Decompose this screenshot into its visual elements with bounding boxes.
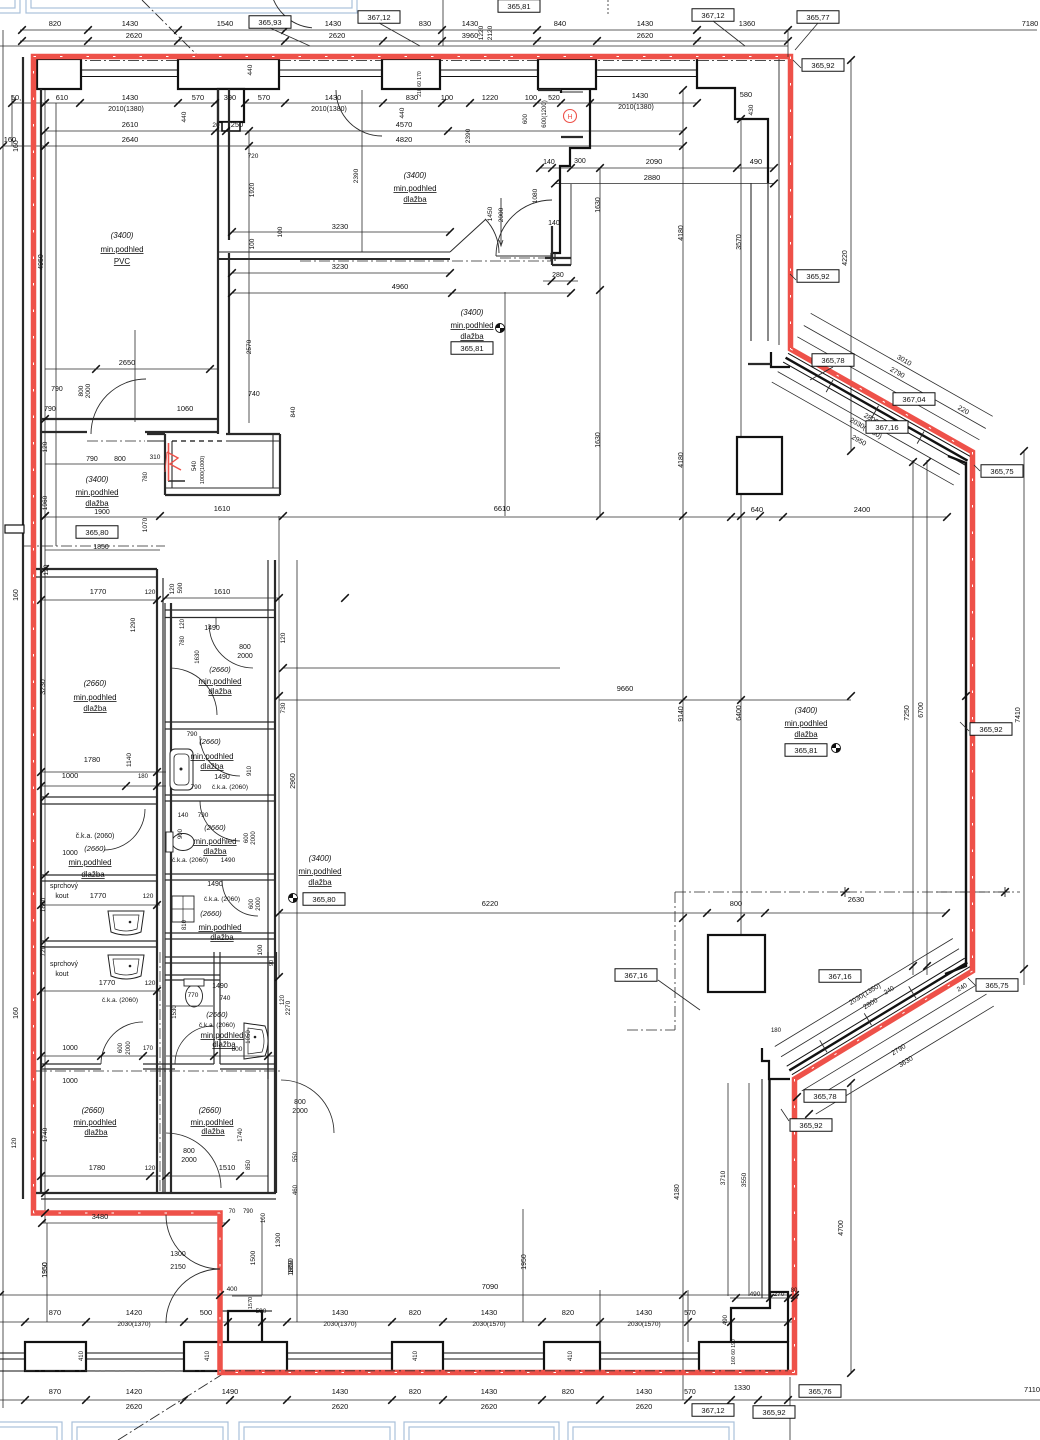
- svg-text:1430: 1430: [325, 93, 342, 102]
- svg-text:2000: 2000: [256, 897, 262, 911]
- svg-text:800: 800: [114, 456, 126, 463]
- svg-text:(3400): (3400): [86, 475, 109, 484]
- svg-text:4700: 4700: [838, 1220, 845, 1236]
- svg-text:1740: 1740: [42, 1127, 49, 1142]
- svg-text:2120: 2120: [487, 25, 494, 40]
- svg-text:1490: 1490: [221, 857, 236, 864]
- svg-text:min.podhled: min.podhled: [193, 837, 236, 846]
- svg-text:1960: 1960: [42, 495, 49, 510]
- svg-text:2620: 2620: [636, 1402, 653, 1411]
- svg-text:160 60 190: 160 60 190: [731, 1339, 737, 1365]
- svg-text:1430: 1430: [481, 1308, 498, 1317]
- svg-text:367,16: 367,16: [875, 423, 898, 432]
- svg-text:(3400): (3400): [795, 706, 818, 715]
- svg-text:2270: 2270: [285, 1000, 292, 1015]
- svg-text:1430: 1430: [325, 19, 342, 28]
- svg-text:dlažba: dlažba: [460, 332, 484, 341]
- svg-text:800: 800: [730, 899, 742, 908]
- svg-text:min.podhled: min.podhled: [68, 858, 111, 867]
- svg-text:1000(1000): 1000(1000): [200, 456, 206, 485]
- svg-text:dlažba: dlažba: [403, 195, 427, 204]
- svg-text:1300: 1300: [275, 1232, 282, 1247]
- svg-text:790: 790: [51, 386, 63, 393]
- svg-text:140: 140: [543, 159, 555, 166]
- svg-text:1900: 1900: [94, 509, 110, 516]
- svg-text:900: 900: [178, 828, 184, 839]
- svg-text:min.podhled: min.podhled: [190, 1118, 233, 1127]
- svg-text:600: 600: [523, 113, 529, 124]
- svg-text:180: 180: [138, 774, 149, 780]
- svg-text:1610: 1610: [214, 587, 231, 596]
- svg-text:490: 490: [750, 157, 762, 166]
- svg-text:365,80: 365,80: [85, 528, 108, 537]
- svg-text:2030(1370): 2030(1370): [323, 1321, 356, 1328]
- svg-text:820: 820: [562, 1308, 574, 1317]
- svg-text:2400: 2400: [854, 505, 871, 514]
- svg-text:440: 440: [247, 64, 254, 75]
- svg-text:1630: 1630: [195, 650, 201, 664]
- svg-text:3550: 3550: [741, 1172, 748, 1187]
- svg-text:2000: 2000: [498, 207, 505, 222]
- svg-text:1950: 1950: [42, 1262, 49, 1278]
- svg-text:1770: 1770: [99, 978, 116, 987]
- svg-text:590: 590: [256, 1308, 267, 1315]
- svg-text:600: 600: [244, 832, 250, 843]
- svg-text:1140: 1140: [126, 753, 133, 767]
- svg-text:1500: 1500: [250, 1250, 257, 1265]
- svg-text:1780: 1780: [89, 1163, 106, 1172]
- svg-text:2150: 2150: [170, 1264, 186, 1271]
- svg-text:640: 640: [751, 505, 763, 514]
- svg-text:365,81: 365,81: [794, 746, 817, 755]
- svg-text:(3400): (3400): [111, 231, 134, 240]
- svg-text:kout: kout: [55, 893, 68, 900]
- svg-text:dlažba: dlažba: [203, 847, 227, 856]
- svg-text:1300: 1300: [170, 1251, 186, 1258]
- svg-text:H: H: [567, 114, 572, 121]
- svg-text:(2660): (2660): [209, 665, 231, 674]
- svg-text:610: 610: [56, 93, 68, 102]
- svg-text:min.podhled: min.podhled: [100, 245, 143, 254]
- svg-text:820: 820: [409, 1387, 421, 1396]
- svg-text:2960: 2960: [290, 773, 297, 789]
- svg-text:2610: 2610: [122, 120, 139, 129]
- svg-text:790: 790: [191, 784, 202, 791]
- svg-text:365,81: 365,81: [507, 2, 530, 11]
- svg-text:120: 120: [143, 893, 154, 900]
- svg-text:120: 120: [42, 441, 49, 452]
- svg-text:č.k.a. (2060): č.k.a. (2060): [76, 833, 115, 840]
- svg-text:365,81: 365,81: [460, 344, 483, 353]
- svg-text:870: 870: [49, 1387, 61, 1396]
- svg-text:1430: 1430: [122, 19, 139, 28]
- svg-text:365,92: 365,92: [979, 725, 1002, 734]
- svg-text:800: 800: [232, 1046, 243, 1053]
- svg-text:(2660): (2660): [84, 679, 107, 688]
- svg-text:(3400): (3400): [461, 308, 484, 317]
- svg-text:730: 730: [280, 702, 287, 713]
- svg-text:790: 790: [86, 456, 98, 463]
- svg-text:570: 570: [684, 1310, 696, 1317]
- svg-text:100: 100: [257, 944, 264, 955]
- svg-text:3230: 3230: [332, 222, 349, 231]
- svg-text:367,12: 367,12: [701, 1406, 724, 1415]
- svg-text:120: 120: [180, 618, 186, 629]
- svg-text:1080: 1080: [532, 188, 539, 203]
- svg-text:6610: 6610: [494, 504, 511, 513]
- svg-text:1290: 1290: [130, 617, 137, 632]
- svg-text:800: 800: [239, 644, 251, 651]
- svg-text:1490: 1490: [204, 625, 220, 632]
- svg-text:2030(1570): 2030(1570): [472, 1321, 505, 1328]
- svg-text:180: 180: [771, 1028, 782, 1034]
- svg-text:6400: 6400: [736, 705, 743, 721]
- svg-text:1070: 1070: [142, 517, 149, 532]
- svg-text:1510: 1510: [219, 1163, 236, 1172]
- svg-text:1920: 1920: [249, 182, 256, 197]
- svg-text:4220: 4220: [842, 250, 849, 266]
- svg-text:dlažba: dlažba: [83, 704, 107, 713]
- svg-text:1430: 1430: [632, 91, 649, 100]
- svg-text:365,76: 365,76: [808, 1387, 831, 1396]
- svg-text:1430: 1430: [636, 1308, 653, 1317]
- svg-text:9660: 9660: [617, 684, 634, 693]
- svg-text:dlažba: dlažba: [200, 762, 224, 771]
- svg-text:min.podhled: min.podhled: [190, 752, 233, 761]
- svg-text:365,93: 365,93: [258, 18, 281, 27]
- svg-text:1430: 1430: [462, 19, 479, 28]
- svg-text:6700: 6700: [918, 702, 925, 718]
- svg-text:1000: 1000: [62, 771, 79, 780]
- svg-text:1430: 1430: [332, 1387, 349, 1396]
- svg-text:570: 570: [258, 93, 270, 102]
- svg-text:800: 800: [183, 1148, 195, 1155]
- svg-text:100: 100: [261, 1212, 267, 1223]
- svg-text:3230: 3230: [332, 262, 349, 271]
- svg-text:1860: 1860: [40, 897, 47, 912]
- svg-text:1740: 1740: [238, 1128, 244, 1142]
- svg-text:1850: 1850: [288, 1260, 295, 1276]
- svg-text:400: 400: [227, 1286, 238, 1293]
- svg-text:367,16: 367,16: [624, 971, 647, 980]
- svg-text:1630: 1630: [595, 197, 602, 213]
- svg-text:1490: 1490: [214, 774, 230, 781]
- svg-text:1220: 1220: [478, 25, 485, 40]
- svg-text:3570: 3570: [736, 234, 743, 250]
- svg-text:4180: 4180: [678, 225, 685, 241]
- svg-text:1050: 1050: [246, 1030, 252, 1044]
- svg-text:min.podhled: min.podhled: [393, 184, 436, 193]
- svg-text:1610: 1610: [214, 504, 231, 513]
- svg-text:2010(1380): 2010(1380): [108, 106, 144, 113]
- svg-text:120: 120: [11, 1137, 18, 1148]
- svg-text:160: 160: [13, 1007, 20, 1019]
- svg-text:kout: kout: [55, 971, 68, 978]
- svg-text:2620: 2620: [332, 1402, 349, 1411]
- svg-text:830: 830: [419, 19, 431, 28]
- svg-text:min.podhled: min.podhled: [73, 1118, 116, 1127]
- svg-text:160: 160: [13, 589, 20, 601]
- svg-text:dlažba: dlažba: [84, 1128, 108, 1137]
- svg-text:50,: 50,: [11, 93, 21, 102]
- svg-text:(2660): (2660): [82, 1106, 105, 1115]
- svg-text:520: 520: [548, 95, 560, 102]
- svg-text:2000: 2000: [181, 1157, 197, 1164]
- svg-text:(3400): (3400): [309, 854, 332, 863]
- svg-text:č.k.a. (2060): č.k.a. (2060): [172, 857, 208, 864]
- svg-text:1770: 1770: [90, 587, 107, 596]
- svg-text:160: 160: [13, 140, 20, 152]
- svg-text:600(1200): 600(1200): [542, 100, 548, 128]
- svg-text:1430: 1430: [481, 1387, 498, 1396]
- svg-text:2620: 2620: [481, 1402, 498, 1411]
- svg-text:2000: 2000: [292, 1108, 308, 1115]
- svg-text:7090: 7090: [482, 1282, 499, 1291]
- svg-text:780: 780: [180, 635, 186, 646]
- svg-text:1490: 1490: [222, 1387, 239, 1396]
- svg-text:550: 550: [293, 1151, 299, 1162]
- svg-text:430: 430: [748, 104, 755, 115]
- svg-text:2650: 2650: [119, 358, 136, 367]
- svg-text:1430: 1430: [332, 1308, 349, 1317]
- svg-text:830: 830: [406, 93, 418, 102]
- svg-text:580: 580: [740, 90, 752, 99]
- svg-text:2030(1570): 2030(1570): [627, 1321, 660, 1328]
- svg-text:7250: 7250: [904, 705, 911, 721]
- svg-text:min.podhled: min.podhled: [73, 693, 116, 702]
- svg-text:367,12: 367,12: [367, 13, 390, 22]
- svg-text:310: 310: [150, 454, 161, 461]
- svg-text:410: 410: [568, 1350, 574, 1361]
- svg-text:1360: 1360: [739, 19, 756, 28]
- svg-text:600: 600: [249, 898, 255, 909]
- svg-text:100: 100: [249, 238, 256, 249]
- svg-text:2390: 2390: [465, 128, 472, 143]
- svg-text:365,92: 365,92: [799, 1121, 822, 1130]
- svg-text:410: 410: [205, 1350, 211, 1361]
- svg-text:300: 300: [574, 158, 586, 165]
- svg-text:min.podhled: min.podhled: [298, 867, 341, 876]
- svg-text:740: 740: [220, 995, 231, 1002]
- svg-text:440: 440: [181, 111, 188, 122]
- svg-text:2620: 2620: [637, 31, 654, 40]
- svg-text:410: 410: [79, 1350, 85, 1361]
- svg-text:1330: 1330: [734, 1383, 751, 1392]
- svg-text:500: 500: [200, 1308, 212, 1317]
- svg-text:840: 840: [554, 19, 566, 28]
- svg-text:7110: 7110: [1024, 1385, 1040, 1394]
- svg-text:365,78: 365,78: [813, 1092, 836, 1101]
- svg-text:780: 780: [143, 471, 149, 482]
- svg-text:1420: 1420: [126, 1308, 143, 1317]
- svg-text:1430: 1430: [122, 93, 139, 102]
- svg-text:4820: 4820: [396, 135, 413, 144]
- svg-text:2000: 2000: [85, 383, 92, 398]
- svg-text:840: 840: [290, 406, 297, 417]
- svg-text:2880: 2880: [644, 173, 661, 182]
- svg-text:3480: 3480: [92, 1212, 109, 1221]
- svg-text:570: 570: [684, 1389, 696, 1396]
- svg-text:120: 120: [43, 564, 50, 575]
- svg-text:365,77: 365,77: [806, 13, 829, 22]
- svg-text:70: 70: [229, 1209, 236, 1215]
- svg-text:min.podhled: min.podhled: [198, 923, 241, 932]
- svg-text:2010(1380): 2010(1380): [311, 106, 347, 113]
- svg-text:(2660): (2660): [206, 1010, 228, 1019]
- svg-text:min.podhled: min.podhled: [75, 488, 118, 497]
- svg-text:100: 100: [441, 93, 453, 102]
- svg-text:2570: 2570: [246, 339, 253, 354]
- svg-text:770: 770: [188, 992, 199, 999]
- svg-text:dlažba: dlažba: [85, 499, 109, 508]
- svg-text:2000: 2000: [237, 653, 253, 660]
- svg-text:1490: 1490: [212, 983, 228, 990]
- svg-text:800: 800: [294, 1099, 306, 1106]
- svg-text:120: 120: [145, 589, 156, 596]
- svg-text:č.k.a. (2060): č.k.a. (2060): [212, 784, 248, 791]
- svg-text:9140: 9140: [678, 706, 685, 722]
- svg-text:sprchový: sprchový: [50, 883, 78, 890]
- svg-text:820: 820: [562, 1387, 574, 1396]
- svg-text:365,78: 365,78: [821, 356, 844, 365]
- svg-text:4180: 4180: [678, 452, 685, 468]
- svg-text:1450: 1450: [487, 206, 494, 221]
- svg-text:365,92: 365,92: [811, 61, 834, 70]
- svg-text:dlažba: dlažba: [208, 687, 232, 696]
- svg-text:min.podhled: min.podhled: [198, 677, 241, 686]
- svg-text:365,92: 365,92: [806, 272, 829, 281]
- svg-text:1220: 1220: [482, 93, 499, 102]
- svg-text:7180: 7180: [1022, 19, 1039, 28]
- svg-text:460: 460: [293, 1184, 299, 1195]
- svg-text:820: 820: [49, 19, 61, 28]
- svg-text:2620: 2620: [126, 1402, 143, 1411]
- svg-text:4180: 4180: [674, 1184, 681, 1200]
- svg-text:100: 100: [277, 226, 284, 237]
- svg-text:850: 850: [246, 1159, 252, 1170]
- svg-text:č.k.a. (2060): č.k.a. (2060): [199, 1022, 235, 1029]
- svg-text:800: 800: [78, 385, 85, 396]
- svg-text:2390: 2390: [353, 168, 360, 183]
- svg-text:1530: 1530: [172, 1005, 178, 1019]
- svg-text:1770: 1770: [90, 891, 107, 900]
- svg-text:367,04: 367,04: [902, 395, 926, 404]
- svg-text:č.k.a. (2060): č.k.a. (2060): [102, 997, 138, 1004]
- svg-text:3710: 3710: [720, 1170, 727, 1185]
- svg-text:4950: 4950: [38, 254, 45, 270]
- svg-text:140: 140: [548, 220, 560, 227]
- svg-text:720: 720: [248, 153, 259, 160]
- svg-text:min.podhled: min.podhled: [450, 321, 493, 330]
- svg-text:120: 120: [145, 1165, 156, 1172]
- svg-text:1850: 1850: [93, 544, 109, 551]
- svg-text:1630: 1630: [595, 432, 602, 448]
- svg-text:1950: 1950: [521, 1254, 528, 1270]
- svg-text:2030(1370): 2030(1370): [117, 1321, 150, 1328]
- svg-text:dlažba: dlažba: [308, 878, 332, 887]
- svg-text:1430: 1430: [636, 1387, 653, 1396]
- svg-text:910: 910: [247, 765, 253, 776]
- svg-text:1430: 1430: [637, 19, 654, 28]
- svg-text:4570: 4570: [396, 120, 413, 129]
- svg-text:390: 390: [224, 93, 236, 102]
- svg-text:2620: 2620: [126, 31, 143, 40]
- svg-text:365,75: 365,75: [985, 981, 1008, 990]
- svg-text:90: 90: [269, 960, 275, 966]
- svg-text:dlažba: dlažba: [81, 870, 105, 879]
- svg-text:810: 810: [182, 919, 188, 930]
- svg-text:410: 410: [413, 1350, 419, 1361]
- svg-text:367,12: 367,12: [701, 11, 724, 20]
- svg-text:dlažba: dlažba: [210, 933, 234, 942]
- svg-text:4960: 4960: [392, 282, 409, 291]
- svg-text:1420: 1420: [126, 1387, 143, 1396]
- svg-text:1780: 1780: [84, 755, 101, 764]
- svg-text:790: 790: [198, 812, 209, 819]
- svg-text:490: 490: [723, 1314, 729, 1325]
- svg-text:7410: 7410: [1015, 707, 1022, 723]
- svg-text:6220: 6220: [482, 899, 499, 908]
- svg-text:790: 790: [44, 406, 56, 413]
- svg-text:2620: 2620: [329, 31, 346, 40]
- svg-text:1000: 1000: [62, 1045, 78, 1052]
- svg-text:1000: 1000: [62, 850, 78, 857]
- svg-text:367,16: 367,16: [828, 972, 851, 981]
- svg-text:365,75: 365,75: [990, 467, 1013, 476]
- svg-text:(2660): (2660): [199, 1106, 222, 1115]
- svg-text:740: 740: [248, 391, 260, 398]
- svg-text:1490: 1490: [207, 881, 223, 888]
- svg-text:(2660): (2660): [204, 823, 226, 832]
- svg-text:1540: 1540: [217, 19, 234, 28]
- svg-text:(2660): (2660): [200, 909, 222, 918]
- svg-text:790: 790: [243, 1209, 254, 1215]
- svg-text:120: 120: [280, 994, 286, 1005]
- svg-text:790: 790: [187, 731, 198, 738]
- svg-text:1570: 1570: [248, 1297, 254, 1309]
- svg-text:170: 170: [143, 1046, 154, 1052]
- svg-text:min.podhled: min.podhled: [200, 1031, 243, 1040]
- svg-text:č.k.a. (2060): č.k.a. (2060): [204, 896, 240, 903]
- svg-text:590: 590: [177, 582, 184, 593]
- svg-text:3230: 3230: [40, 679, 47, 695]
- svg-text:440: 440: [399, 107, 406, 118]
- svg-text:600: 600: [118, 1042, 124, 1053]
- svg-text:sprchový: sprchový: [50, 961, 78, 968]
- svg-text:PVC: PVC: [114, 257, 131, 266]
- svg-text:(3400): (3400): [404, 171, 427, 180]
- svg-text:120: 120: [169, 583, 176, 594]
- svg-text:570: 570: [192, 93, 204, 102]
- svg-text:20: 20: [212, 122, 220, 129]
- svg-text:365,92: 365,92: [762, 1408, 785, 1417]
- svg-text:2010(1380): 2010(1380): [618, 104, 654, 111]
- svg-text:490: 490: [750, 1291, 761, 1298]
- svg-text:120: 120: [280, 632, 287, 643]
- svg-text:(2660): (2660): [199, 737, 221, 746]
- svg-text:270: 270: [774, 1291, 785, 1298]
- svg-text:80: 80: [791, 1288, 798, 1294]
- svg-text:2000: 2000: [126, 1041, 132, 1055]
- svg-text:100: 100: [525, 93, 537, 102]
- svg-text:2000: 2000: [251, 831, 257, 845]
- svg-text:540: 540: [192, 460, 198, 471]
- svg-text:min.podhled: min.podhled: [784, 719, 827, 728]
- svg-text:720: 720: [40, 945, 47, 956]
- svg-text:120: 120: [145, 980, 156, 987]
- svg-text:dlažba: dlažba: [794, 730, 818, 739]
- svg-text:1000: 1000: [62, 1078, 78, 1085]
